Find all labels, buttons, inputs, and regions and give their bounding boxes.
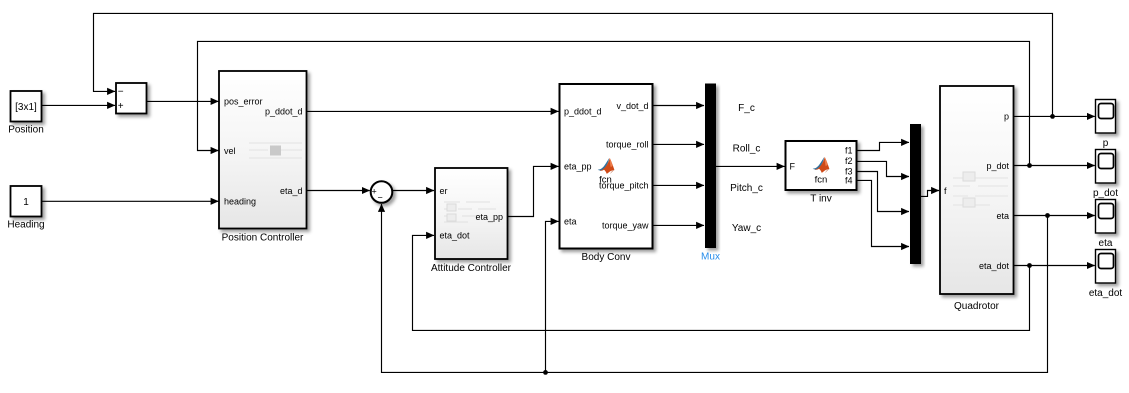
svg-text:p: p [1004,111,1009,121]
svg-text:p_dot: p_dot [986,161,1009,171]
svg-text:er: er [440,186,448,196]
svg-text:heading: heading [224,197,256,207]
svg-text:F: F [790,161,796,171]
svg-text:Roll_c: Roll_c [733,144,761,155]
svg-text:vel: vel [224,146,236,156]
svg-text:torque_roll: torque_roll [606,139,649,149]
svg-text:eta: eta [996,211,1009,221]
svg-text:eta_dot: eta_dot [979,261,1010,271]
svg-text:1: 1 [23,197,29,208]
svg-text:T inv: T inv [810,194,832,205]
svg-text:f2: f2 [845,156,853,166]
svg-text:−: − [118,87,124,98]
svg-text:eta_dot: eta_dot [440,231,471,241]
svg-text:Position: Position [8,125,44,136]
svg-text:eta: eta [1099,238,1113,249]
svg-text:F_c: F_c [738,103,755,114]
svg-text:eta_d: eta_d [280,186,303,196]
svg-text:p_ddot_d: p_ddot_d [265,106,303,116]
svg-text:Yaw_c: Yaw_c [732,223,761,234]
svg-text:−: − [378,193,383,203]
svg-text:p_dot: p_dot [1093,188,1118,199]
svg-text:Pitch_c: Pitch_c [730,183,763,194]
svg-text:+: + [118,101,124,112]
svg-text:eta: eta [564,217,577,227]
svg-text:fcn: fcn [599,175,612,186]
svg-text:pos_error: pos_error [224,96,263,106]
svg-text:eta_dot: eta_dot [1089,288,1123,299]
svg-text:Heading: Heading [7,219,44,230]
svg-text:p_ddot_d: p_ddot_d [564,106,602,116]
svg-text:Quadrotor: Quadrotor [954,301,1000,312]
svg-text:torque_yaw: torque_yaw [602,220,649,230]
svg-text:v_dot_d: v_dot_d [616,101,648,111]
svg-text:Body Conv: Body Conv [582,252,631,263]
svg-text:f4: f4 [845,176,853,186]
svg-text:Attitude Controller: Attitude Controller [431,263,512,274]
svg-text:fcn: fcn [815,175,828,186]
svg-text:Mux: Mux [701,252,720,263]
svg-text:eta_pp: eta_pp [475,212,503,222]
svg-text:f1: f1 [845,146,853,156]
svg-text:p: p [1103,138,1109,149]
svg-text:+: + [372,186,377,196]
svg-text:eta_pp: eta_pp [564,161,592,171]
svg-text:Position Controller: Position Controller [222,232,304,243]
svg-text:[3x1]: [3x1] [15,102,37,113]
